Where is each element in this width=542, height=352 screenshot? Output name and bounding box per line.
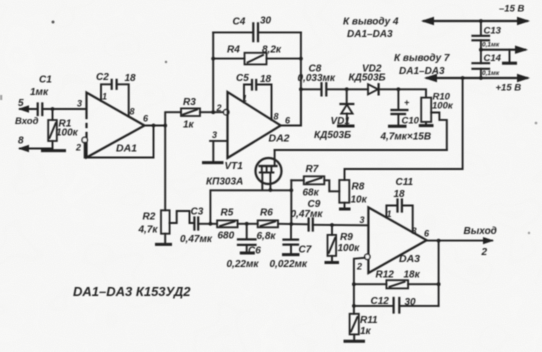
power rail common (middle) <box>479 46 528 62</box>
net label: К выводу 7 DA1-DA3 <box>394 53 450 77</box>
DA2 pin 3 wire <box>210 130 227 161</box>
ground (input / R1) <box>41 149 66 152</box>
resistor R10 <box>421 92 454 125</box>
capacitor C13 <box>473 21 502 50</box>
DA3 pin 3 label <box>360 215 365 225</box>
wire: DA3 pin2 stub <box>352 258 365 314</box>
net label: Выход 2 <box>464 226 497 258</box>
capacitor C12 <box>354 296 439 313</box>
input terminal 5 <box>18 98 37 113</box>
DA3 pin 2 (open circle) <box>356 254 370 271</box>
capacitor C2 <box>96 72 136 117</box>
DA3 pin 8 label <box>412 226 417 236</box>
diode VD2 <box>347 64 399 95</box>
ground (C7) <box>282 253 300 256</box>
capacitor C6 <box>227 224 262 270</box>
power rail +15V <box>424 74 530 94</box>
ground (R9) <box>325 261 340 264</box>
ground (R2) <box>155 243 172 246</box>
DA1 pin 8 label <box>130 107 135 117</box>
capacitor C5 <box>236 73 272 120</box>
DA1 pin 3 label <box>77 99 82 109</box>
wire: C3 to R5 <box>198 222 217 226</box>
DA2 pin 6 label <box>285 116 291 126</box>
wire: +15V to R8 <box>345 78 463 180</box>
ground (DA2 pin 3) <box>202 161 224 164</box>
wire: R5 to R6 <box>238 222 258 226</box>
wire: DA3 feedback right rail <box>437 241 441 306</box>
wire: R10 wiper to control line <box>431 113 447 151</box>
capacitor C7 <box>270 224 312 270</box>
resistor R4 <box>213 45 301 65</box>
resistor R12 <box>354 270 439 289</box>
ground (C10) <box>388 125 407 128</box>
node: Вход label <box>15 116 39 127</box>
wire: R7/R6 junction rail <box>289 180 293 226</box>
transistor VT1 <box>206 158 282 188</box>
capacitor C8 <box>298 64 347 96</box>
wire: R2 wiper jog to C3 <box>170 211 194 223</box>
wire: DA2 output <box>281 89 301 125</box>
input terminal 8 <box>18 136 53 153</box>
wire: VT1 bus to signal nodes <box>210 188 293 223</box>
ground (R8) <box>339 208 351 211</box>
DA2 pin 8 label <box>274 112 279 122</box>
power rail -15V <box>421 4 530 26</box>
wire: R3 to DA2 pin 2 <box>200 110 224 114</box>
DA2 pin 2 (open circle) <box>216 103 229 115</box>
op-amp DA3 <box>368 207 426 273</box>
resistor R3 <box>181 97 200 131</box>
stray marks <box>0 21 537 235</box>
wire: C1 to DA1 pin3 <box>42 107 86 111</box>
wire: VT1 drain to control line <box>274 150 276 166</box>
wire: DA1 feedback to pin 2 <box>85 124 156 158</box>
capacitor C14 <box>473 50 502 78</box>
capacitor C4 <box>213 16 301 42</box>
wire: VT1 source/gate leads <box>262 173 272 192</box>
ground (C6) <box>240 252 255 255</box>
DA1 pin 2 (open circle) <box>75 137 87 152</box>
capacitor C9 <box>291 199 324 231</box>
op-amp DA1 <box>85 93 145 158</box>
resistor R5 <box>217 208 238 242</box>
resistor R8 <box>339 180 367 208</box>
resistor R6 <box>257 208 279 243</box>
potentiometer R2 <box>138 126 170 243</box>
capacitor C3 <box>180 207 213 246</box>
DA1 pin 1 label <box>102 92 107 102</box>
ground (common rail) <box>502 62 517 65</box>
resistor R11 <box>350 314 378 340</box>
wire: DA2 feedback right rail <box>299 32 303 125</box>
resistor R7 <box>291 164 339 199</box>
net label: К выводу 4 DA1-DA3 <box>343 17 399 41</box>
capacitor C11 <box>386 177 413 232</box>
node A: rectifier input junction <box>345 87 349 91</box>
wire: DA3 output <box>427 237 494 244</box>
resistor R9 <box>328 225 361 261</box>
wire: DA1 output <box>145 124 168 128</box>
ground (VD1) <box>337 125 355 128</box>
wire: DA1 output up to R3 <box>165 112 181 125</box>
ground (R11) <box>344 340 366 343</box>
resistor R1 <box>48 109 78 149</box>
wire: R6 to C9 <box>278 223 308 226</box>
note: DA1-DA3 К153УД2 <box>73 284 191 299</box>
wire: VD2 to R10 <box>397 87 427 97</box>
DA3 pin 6 label <box>424 229 430 239</box>
wire: control line (gate bus) <box>275 149 447 151</box>
capacitor C10 <box>380 89 432 142</box>
DA1 pin 6 label <box>143 114 149 124</box>
wire: DA2 feedback left rail <box>211 32 215 112</box>
ground (R10) <box>419 124 434 127</box>
wire: C9 to DA3 pin 3 <box>313 223 369 227</box>
op-amp DA2 <box>228 92 290 158</box>
capacitor C1 <box>30 75 52 116</box>
diode VD1 <box>314 89 353 141</box>
